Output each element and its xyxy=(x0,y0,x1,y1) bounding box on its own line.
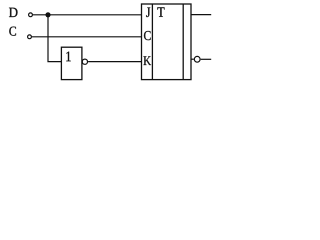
junction dot on D wire xyxy=(45,12,50,17)
flip-flop inner divider right xyxy=(182,4,184,80)
wire stub to inverted output bubble xyxy=(191,58,194,60)
input terminal C xyxy=(28,35,32,39)
pin label J xyxy=(146,8,150,18)
pin label K xyxy=(144,56,152,65)
label C xyxy=(9,27,16,36)
inverter label 1 xyxy=(66,52,70,62)
wire branch from D junction down and right to inverter input xyxy=(48,15,61,62)
flip-flop U2 box xyxy=(142,4,192,80)
pin label C xyxy=(144,31,151,40)
wire output Q xyxy=(191,14,211,16)
wire C terminal to C input xyxy=(32,36,142,38)
inverter output bubble xyxy=(82,59,87,64)
wire inverter output to K input xyxy=(88,61,141,63)
input terminal D xyxy=(29,13,33,17)
label D xyxy=(9,8,18,17)
flip-flop inner divider left xyxy=(151,4,153,80)
wire inverted output Q bar xyxy=(201,58,212,60)
inverted output bubble xyxy=(194,56,200,62)
label T xyxy=(157,7,164,16)
inverter U1 box xyxy=(61,47,82,79)
wire D terminal to J input xyxy=(33,14,142,16)
